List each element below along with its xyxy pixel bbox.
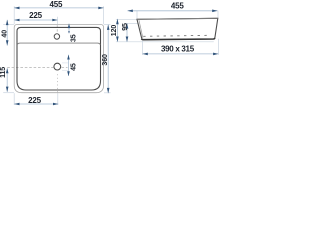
dimension 40 bottom arrow	[6, 40, 9, 45]
extension line left top (x=14.2 up)	[13, 6, 15, 24]
svg-text:40: 40	[2, 30, 9, 38]
elevation extension 120 top tick	[116, 18, 137, 20]
drain hole	[54, 63, 61, 70]
elevation extension 95 top tick	[125, 23, 138, 25]
basin inner left rim line	[139, 20, 143, 38]
centerline horizontal right of drain	[62, 67, 68, 69]
elevation extension left top	[136, 11, 138, 19]
svg-text:115: 115	[0, 67, 7, 78]
dimension 40 line	[6, 20, 8, 46]
dimension 225 top line	[14, 19, 57, 21]
basin top rim edge (perspective)	[137, 18, 218, 19]
dimension 225 top right arrow	[52, 19, 57, 22]
dimension 225 bottom left arrow	[14, 103, 19, 106]
dimension 120 bottom arrow	[116, 37, 119, 42]
dimension 35 top arrow	[68, 24, 71, 29]
centerline horizontal through drain	[7, 67, 53, 69]
svg-text:360: 360	[102, 54, 109, 66]
dimension 455 plan line	[14, 7, 103, 9]
dimension 40 top arrow	[6, 20, 9, 25]
extension tick drain bottom tangent	[62, 69, 68, 71]
extension tick 40-dim top edge	[3, 23, 14, 25]
extension line bottom 225 left	[13, 93, 15, 105]
dimension 45 bottom arrow	[67, 71, 70, 76]
dimension 120 line	[116, 19, 118, 42]
extension tick 360 bottom	[104, 92, 111, 94]
faucet hole	[54, 34, 59, 39]
dimension 95 top arrow	[126, 23, 129, 28]
extension line right top (x=103.6 up)	[103, 6, 105, 24]
svg-text:45: 45	[70, 63, 77, 71]
dimension 95 line	[126, 23, 128, 42]
basin inner bowl edge (plan view)	[17, 27, 101, 90]
svg-text:390 x 315: 390 x 315	[161, 44, 195, 53]
extension tick 115-dim bottom edge	[3, 92, 14, 94]
elevation extension right top	[217, 11, 219, 18]
dimension 390x315 line	[143, 53, 219, 55]
bowl front shelf line	[17, 43, 100, 45]
dimension 95 bottom arrow	[126, 37, 129, 42]
elevation extension 390 left	[142, 41, 144, 55]
svg-text:455: 455	[171, 1, 184, 10]
centerline vertical below drain	[56, 74, 58, 92]
basin outer rim (plan view)	[14, 25, 103, 93]
dimension 45 top arrow	[67, 55, 70, 60]
dimension 225 bottom line	[14, 103, 58, 105]
dimension 35 line	[68, 24, 70, 34]
dimension 115 top arrow	[6, 68, 9, 73]
extension line faucet centre top	[56, 17, 58, 24]
basin body (perspective view)	[137, 18, 218, 39]
dimension 455 elevation line	[128, 10, 218, 12]
dimension 455 plan left arrow	[14, 7, 19, 10]
svg-text:225: 225	[28, 96, 41, 105]
dimension 115 line	[6, 68, 8, 92]
dimension 120 top arrow	[116, 19, 119, 24]
elevation extension 390 right	[217, 39, 219, 55]
svg-text:35: 35	[71, 34, 78, 42]
extension line bottom 225 right	[57, 93, 59, 105]
dimension 225 top left arrow	[14, 19, 19, 22]
dimension 390x315 right arrow	[213, 53, 218, 56]
hidden bowl bottom dashed line	[143, 35, 211, 36]
svg-text:225: 225	[29, 11, 42, 20]
dimension 360 bottom arrow	[107, 88, 110, 93]
dimension 115 bottom arrow	[6, 87, 9, 92]
dimension 455 elevation right arrow	[212, 10, 217, 13]
dimension 35 bottom tick	[68, 31, 70, 33]
svg-text:455: 455	[50, 0, 63, 9]
extension tick 360 top	[104, 24, 111, 26]
centerline vertical above faucet hole	[56, 25, 58, 33]
dimension 455 plan right arrow	[98, 7, 103, 10]
dimension 455 elevation left arrow	[128, 10, 133, 13]
basin bottom edge (perspective, bold)	[142, 38, 215, 40]
dimension 45 line	[68, 55, 70, 76]
dimension 225 bottom right arrow	[53, 103, 58, 106]
dimension 360 line	[107, 25, 109, 94]
svg-text:120: 120	[111, 25, 118, 37]
extension tick drain top tangent	[62, 62, 68, 64]
dimension 360 top arrow	[107, 25, 110, 30]
dimension 390x315 left arrow	[143, 53, 148, 56]
elevation extension shared bottom tick	[116, 41, 214, 43]
svg-text:95: 95	[122, 23, 129, 31]
